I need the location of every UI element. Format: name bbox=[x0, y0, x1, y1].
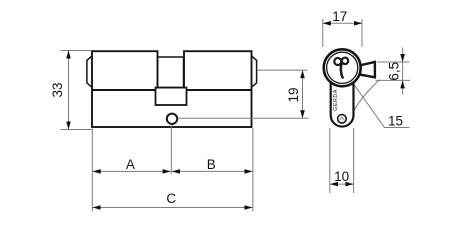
svg-text:B: B bbox=[207, 157, 216, 172]
svg-text:6,5: 6,5 bbox=[386, 62, 401, 81]
svg-text:15: 15 bbox=[388, 114, 403, 129]
svg-text:GERDA: GERDA bbox=[333, 89, 339, 111]
svg-text:33: 33 bbox=[50, 82, 65, 97]
svg-text:A: A bbox=[126, 157, 135, 172]
svg-text:19: 19 bbox=[286, 87, 301, 102]
svg-text:10: 10 bbox=[334, 169, 349, 184]
svg-text:17: 17 bbox=[332, 9, 347, 24]
svg-text:C: C bbox=[166, 191, 176, 206]
